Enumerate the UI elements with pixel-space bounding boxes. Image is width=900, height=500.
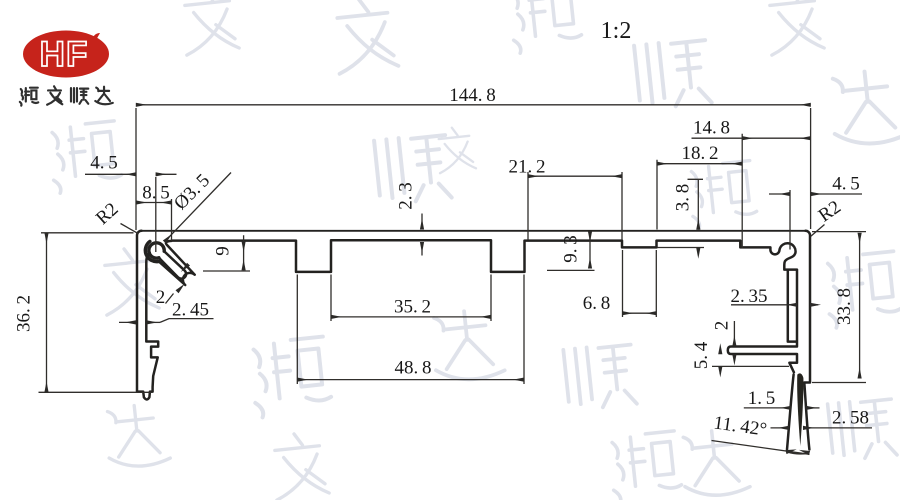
- svg-text:14. 8: 14. 8: [693, 118, 730, 139]
- svg-text:18. 2: 18. 2: [681, 143, 718, 164]
- svg-text:5. 4: 5. 4: [691, 341, 712, 369]
- svg-text:4. 5: 4. 5: [832, 174, 860, 195]
- svg-text:HF: HF: [40, 35, 89, 74]
- svg-text:8. 5: 8. 5: [142, 183, 170, 204]
- svg-text:1. 5: 1. 5: [748, 388, 776, 409]
- svg-text:144. 8: 144. 8: [449, 85, 496, 106]
- svg-text:6. 8: 6. 8: [583, 293, 611, 314]
- svg-text:2: 2: [156, 287, 166, 308]
- svg-text:2: 2: [712, 321, 733, 331]
- svg-text:9: 9: [213, 246, 234, 256]
- svg-text:33. 8: 33. 8: [834, 288, 855, 325]
- svg-text:3. 8: 3. 8: [673, 184, 694, 212]
- svg-text:1:2: 1:2: [601, 18, 632, 44]
- svg-text:2. 45: 2. 45: [172, 300, 209, 321]
- svg-text:36. 2: 36. 2: [14, 295, 35, 332]
- svg-text:35. 2: 35. 2: [394, 297, 431, 318]
- svg-text:9. 3: 9. 3: [561, 235, 582, 263]
- svg-text:4. 5: 4. 5: [90, 153, 118, 174]
- svg-text:2. 3: 2. 3: [396, 182, 417, 210]
- svg-text:2. 58: 2. 58: [832, 408, 869, 429]
- svg-text:48. 8: 48. 8: [394, 358, 431, 379]
- svg-text:2. 35: 2. 35: [730, 286, 767, 307]
- svg-text:21. 2: 21. 2: [508, 157, 545, 178]
